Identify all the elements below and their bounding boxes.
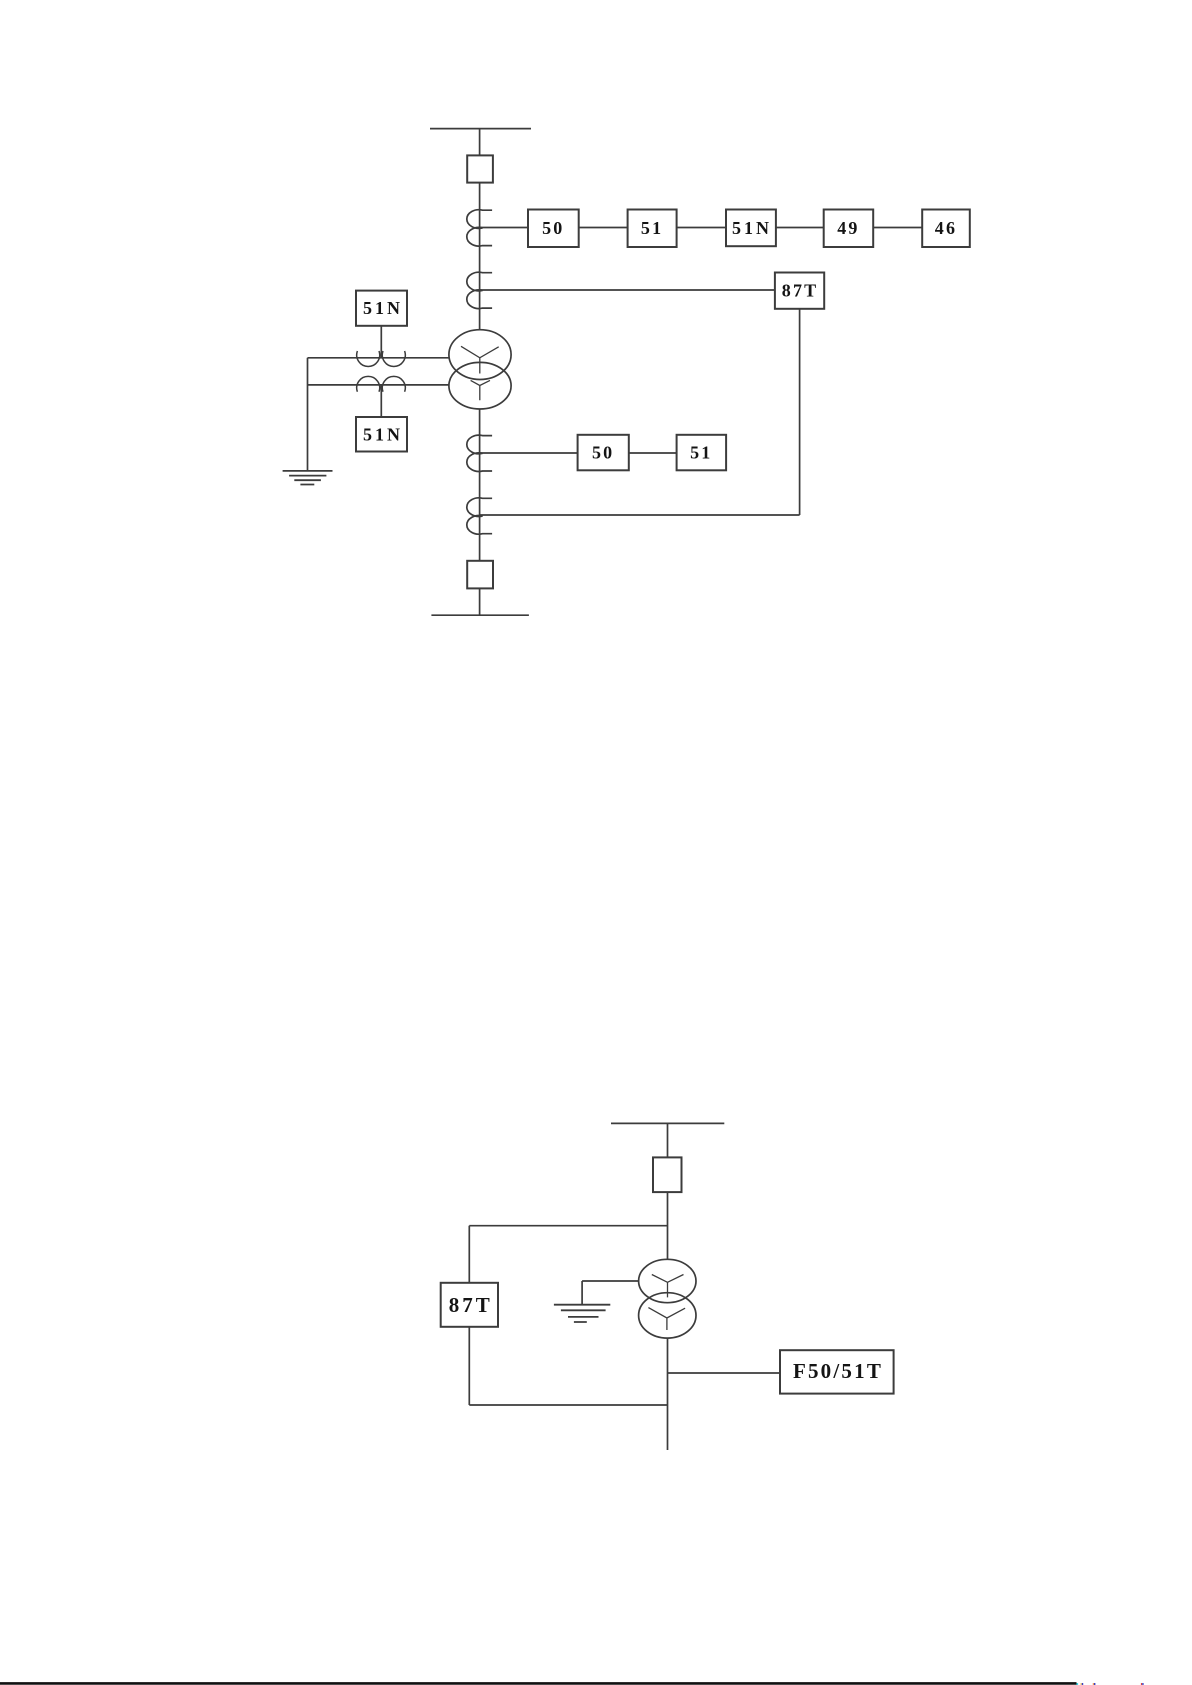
svg-text:87T: 87T xyxy=(449,1293,493,1317)
wire (T2 secondary feeder) xyxy=(667,1338,669,1450)
svg-text:51: 51 xyxy=(690,443,712,463)
bus 1 (top busbar, figure 1) xyxy=(430,128,531,130)
relay 87T (figure 1) xyxy=(775,273,824,309)
relay 46 xyxy=(922,210,970,248)
wire (CT3 tap to relay 50 LV) xyxy=(480,452,578,454)
CT CT6 (lower neutral CT) xyxy=(357,376,406,391)
node: T2 secondary wye symbol xyxy=(648,1308,685,1330)
relay 51 (LV) xyxy=(677,435,727,471)
wire (49 to 46) xyxy=(873,227,922,229)
relay 87T (figure 2) xyxy=(441,1283,498,1327)
wire (CB1 to transformer T1 primary) xyxy=(479,183,481,330)
wire (50 LV to 51 LV) xyxy=(629,452,677,454)
relay 49 xyxy=(824,210,874,248)
wire (51N to 49) xyxy=(776,227,824,229)
CT CT3 (LV phase CT) xyxy=(467,435,492,471)
wire (CT2 tap to relay 87T) xyxy=(480,289,775,291)
svg-text:F50/51T: F50/51T xyxy=(793,1359,883,1383)
CT CT2 (HV differential CT) xyxy=(467,272,492,308)
relay 51 (HV) xyxy=(628,210,677,248)
svg-text:49: 49 xyxy=(837,218,859,238)
relay 51N (HV) xyxy=(726,210,776,247)
wire (CB3 to transformer T2) xyxy=(667,1192,669,1259)
wire (87T lower leg) xyxy=(468,1327,470,1405)
wire (tap to relay F50/51T) xyxy=(668,1372,781,1374)
page number remnant (subpixel specks) xyxy=(1077,1683,1144,1685)
svg-text:51N: 51N xyxy=(363,298,403,318)
svg-text:51N: 51N xyxy=(363,424,403,444)
CT CT4 (LV differential CT) xyxy=(467,498,492,534)
wire (bus 1 to breaker CB1) xyxy=(479,129,481,156)
wire (51 to 51N) xyxy=(677,227,726,229)
relay F50/51T xyxy=(780,1350,894,1393)
ground (figure 1 neutral earth) xyxy=(283,471,333,485)
wire (CT6 to 51N lower) xyxy=(380,385,382,417)
svg-text:87T: 87T xyxy=(782,281,819,301)
node: T1 primary wye symbol xyxy=(461,346,499,373)
bus 3 (busbar, figure 2) xyxy=(611,1122,724,1124)
transformer T2 primary winding circle xyxy=(639,1259,696,1302)
CT CT5 (upper neutral CT) xyxy=(357,351,406,366)
ground (figure 2 neutral earth) xyxy=(554,1305,610,1322)
wire (CB2 to bus 2) xyxy=(479,588,481,615)
circuit breaker CB1 xyxy=(467,155,493,182)
wire (CT1 tap to relay 50) xyxy=(480,227,528,229)
page footer rule xyxy=(0,1682,1077,1685)
relay 50 (LV) xyxy=(578,435,629,471)
svg-text:46: 46 xyxy=(935,218,957,238)
bus 2 (bottom busbar, figure 1) xyxy=(431,614,529,616)
wire (50 to 51) xyxy=(579,227,628,229)
CT CT1 (HV phase CT, upper) xyxy=(467,210,492,246)
node: T2 primary wye symbol xyxy=(652,1275,684,1298)
svg-text:51N: 51N xyxy=(732,218,772,238)
relay 51N (lower neutral) xyxy=(356,417,407,452)
wire (bus 3 to breaker CB3) xyxy=(667,1123,669,1157)
circuit breaker CB3 xyxy=(653,1157,682,1192)
wire (87T upper leg) xyxy=(468,1226,470,1283)
svg-text:51: 51 xyxy=(641,218,663,238)
svg-text:50: 50 xyxy=(542,218,564,238)
wire (51N upper to CT5) xyxy=(380,326,382,358)
wire (bottom horizontal to main line) xyxy=(469,1404,667,1406)
circuit breaker CB2 xyxy=(467,561,493,589)
wire (87T down leg) xyxy=(799,309,801,515)
wire (T1 secondary to LV breaker) xyxy=(479,409,481,561)
svg-text:50: 50 xyxy=(592,443,614,463)
relay 50 (HV) xyxy=(528,210,579,248)
transformer T2 secondary winding circle xyxy=(639,1293,696,1338)
wire (T2 neutral to ground) xyxy=(582,1281,639,1305)
wire (neutral down lead to ground) xyxy=(307,358,309,471)
node: T1 secondary wye symbol xyxy=(471,380,490,400)
wire (CT4 tap to 87T leg) xyxy=(480,514,800,516)
wire (upper neutral lead to T1) xyxy=(308,357,449,359)
transformer T1 primary winding circle xyxy=(449,330,511,380)
relay 51N (upper neutral) xyxy=(356,291,407,326)
wire (branch to 87T, top horizontal) xyxy=(469,1225,667,1227)
transformer T1 secondary winding circle xyxy=(449,362,511,409)
wire (lower neutral lead to T1) xyxy=(308,384,449,386)
